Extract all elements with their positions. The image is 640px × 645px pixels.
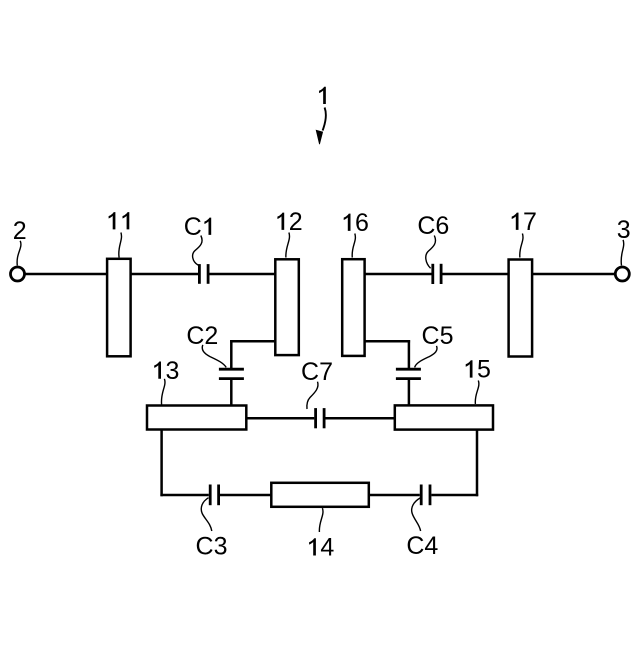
svg-text:C5: C5 [422,322,454,350]
capacitor C5 [396,369,421,378]
wire R16 to C6 [365,273,432,276]
resonator 17 [509,260,532,357]
svg-text:14: 14 [306,534,334,562]
label 15 [463,356,491,384]
wire R17 to terminal 3 [532,273,615,276]
resonator 12 [275,259,299,355]
capacitor C6 [433,264,441,284]
wire C7 to R15 [326,417,396,420]
leader line C5 [415,346,437,368]
capacitor C1 [199,264,208,284]
arrow from label 1 [316,108,326,145]
leader line 12 [286,233,290,258]
wire C3 to R14 [220,494,272,497]
label 16 [341,209,369,237]
svg-text:C3: C3 [196,532,228,560]
wire R12 branch to C2 [230,340,275,368]
svg-text:16: 16 [341,209,369,237]
wire C4 to R15 bottom [431,430,478,497]
resonator 13 [147,406,246,430]
leader line 13 [161,379,165,405]
label 12 [275,208,303,236]
svg-text:C6: C6 [417,212,449,240]
resonator 15 [395,405,493,429]
resonator 14 [271,483,369,507]
wire R13 down-left of bottom loop [160,430,208,497]
leader line C7 [307,382,318,409]
leader line 17 [520,234,523,258]
wire C1 to R12 [209,273,276,276]
label 14 [306,534,334,562]
wire terminal2 to R11 [25,273,109,276]
leader line C4 [412,498,421,531]
wire C6 to R17 [443,273,510,276]
svg-text:15: 15 [463,356,491,384]
svg-text:12: 12 [275,208,303,236]
leader line 2 [17,241,21,266]
wire C2 to R13 [230,380,233,406]
capacitor C4 [421,485,430,506]
capacitor C2 [219,369,244,378]
label 13 [152,357,180,385]
leader line 15 [475,381,479,405]
terminal 2 [11,267,25,281]
leader line 11 [119,233,122,258]
label 11 [109,212,130,229]
resonator 11 [107,259,131,357]
leader line C6 [426,236,436,269]
svg-text:13: 13 [152,357,180,385]
svg-text:C7: C7 [301,358,333,386]
capacitor C3 [210,485,218,506]
label 17 [509,208,537,236]
wire R14 to C4 [369,494,420,497]
wire R13 to C7 [246,417,314,420]
wire R16 branch to C5 [365,340,410,368]
svg-text:2: 2 [13,217,27,245]
label C1 [184,213,216,241]
leader line C1 [193,236,202,266]
leader line C3 [201,498,212,531]
svg-text:C4: C4 [406,532,438,560]
wire C5 to R15 [408,380,411,406]
leader line 14 [319,508,323,532]
resonator 16 [342,259,364,356]
wire R11 to C1 [131,273,199,276]
capacitor C7 [316,408,325,428]
leader line 3 [621,240,624,266]
leader line 16 [352,234,355,258]
terminal 3 [615,267,629,281]
leader line C2 [202,345,226,368]
svg-text:17: 17 [509,208,537,236]
label 1 [319,87,326,104]
